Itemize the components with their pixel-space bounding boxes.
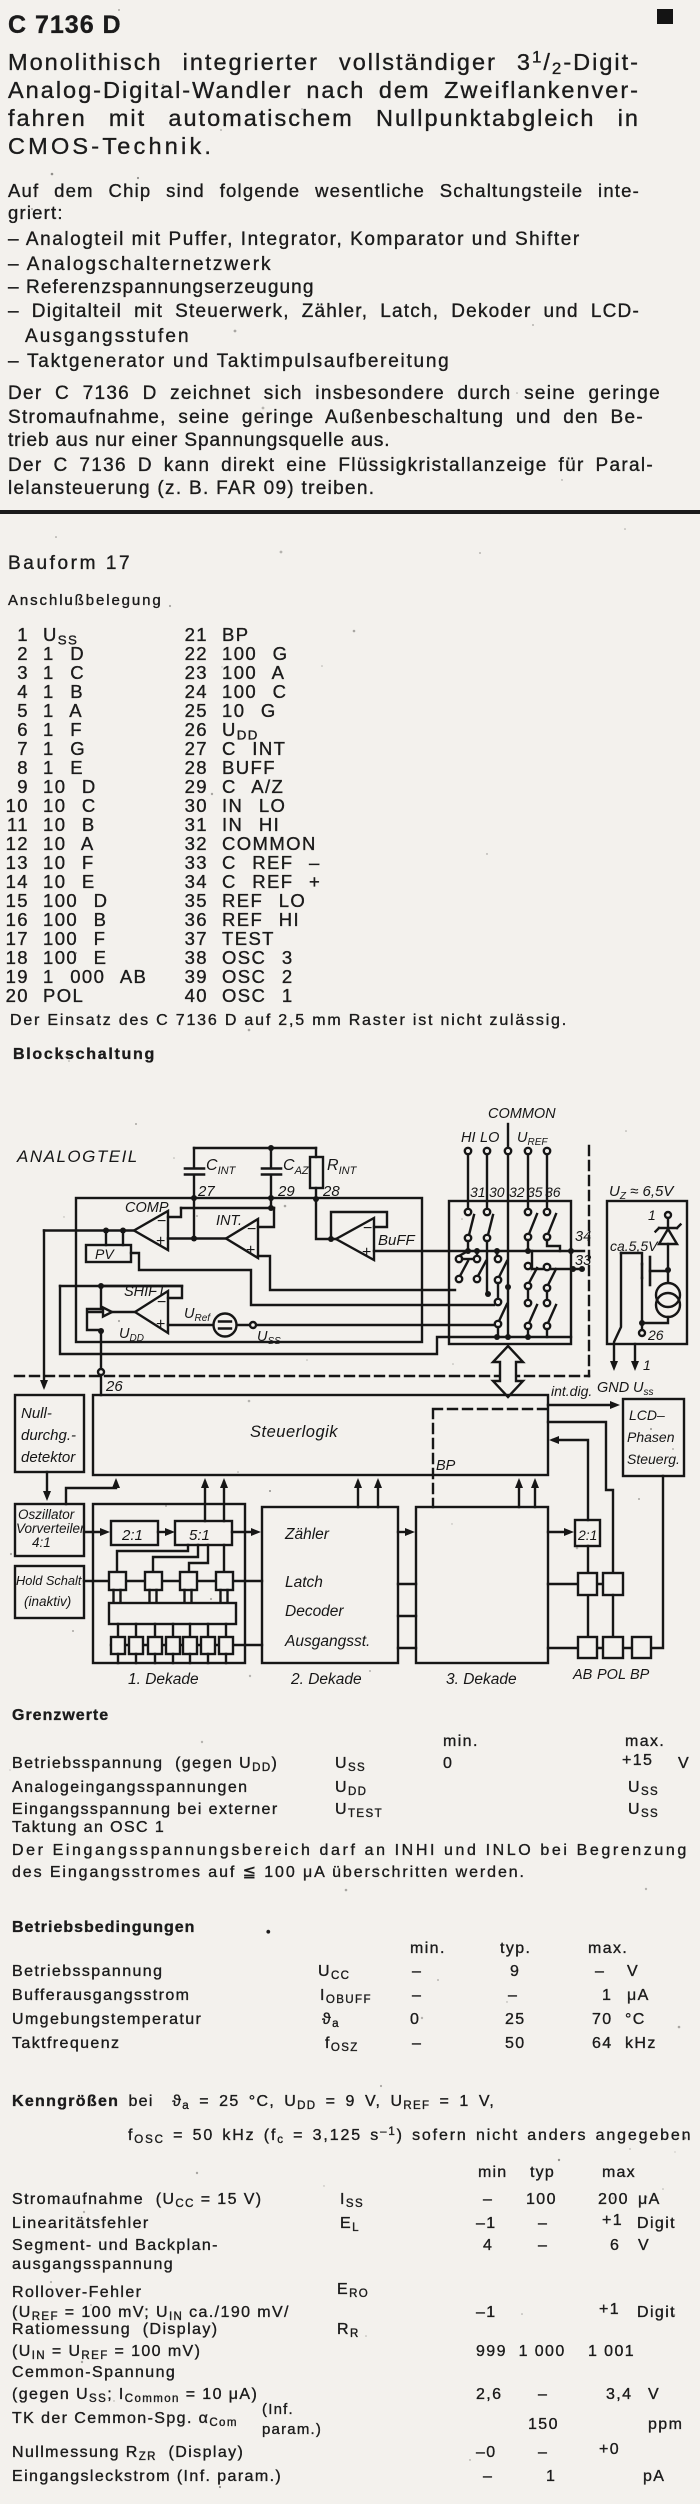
- dashed analog boundary horizontal: [15, 1375, 589, 1377]
- switch S32c: [495, 1299, 507, 1337]
- box 3. Dekade: [416, 1507, 548, 1663]
- wire pin31 drop: [467, 1154, 469, 1201]
- intro paragraph: [8, 48, 640, 104]
- svg-text:CINT: CINT: [206, 1157, 237, 1177]
- svg-text:BP: BP: [436, 1458, 456, 1474]
- voltage regulator box: [607, 1201, 687, 1344]
- current source: [642, 1270, 680, 1323]
- wire to null detector (left drop with arrow): [43, 1231, 45, 1387]
- junction S30 lower: [485, 1291, 491, 1297]
- svg-text:(inaktiv): (inaktiv): [24, 1594, 71, 1609]
- wire 2.Dekade up arrows: [358, 1482, 378, 1507]
- svg-text:HI: HI: [461, 1130, 476, 1146]
- wire INT plus output to switches (y=1290): [258, 1256, 455, 1290]
- zener diode: [656, 1218, 681, 1267]
- latch cells row1: [109, 1572, 233, 1590]
- svg-text:durchg.-: durchg.-: [21, 1427, 76, 1444]
- dashed BP region: [433, 1409, 548, 1507]
- terminal U_SS: [250, 1322, 281, 1347]
- svg-text:4:1: 4:1: [32, 1535, 51, 1550]
- wire top bus C_INT/C_AZ/R_INT: [194, 1147, 316, 1149]
- wire AB feedback into Steuerlogik: [553, 1440, 588, 1520]
- svg-text:ANALOGTEIL: ANALOGTEIL: [16, 1147, 139, 1166]
- wire COMMON stem: [507, 1124, 509, 1148]
- svg-text:COMMON: COMMON: [488, 1106, 556, 1122]
- capacitor C_AZ: [262, 1148, 310, 1198]
- junction pin27 on box top: [191, 1195, 197, 1201]
- junction pin28 on box top: [313, 1196, 319, 1202]
- wire Steuerlogik to LCD with arrow: [548, 1404, 615, 1406]
- switch S36: [544, 1201, 560, 1251]
- switch S35c: [525, 1300, 537, 1337]
- svg-text:CAZ: CAZ: [283, 1157, 310, 1177]
- svg-text:36: 36: [545, 1184, 561, 1200]
- transistor pass element: [621, 1253, 666, 1323]
- svg-text:Null-: Null-: [21, 1405, 52, 1422]
- driver cell AB bottom: [578, 1637, 597, 1658]
- wire 5:1 distribution: [117, 1545, 224, 1572]
- wire null detector to oscillator: [46, 1472, 48, 1496]
- junctions bottom bus: [494, 1334, 531, 1340]
- svg-text:LO: LO: [480, 1130, 499, 1146]
- svg-text:2:1: 2:1: [121, 1527, 143, 1544]
- rule: [0, 510, 700, 514]
- wire output row (y=1645): [111, 1644, 262, 1646]
- divider 2:1: [111, 1521, 158, 1545]
- svg-text:detektor: detektor: [21, 1449, 76, 1466]
- wire C_AZ feedback (y=1208): [181, 1207, 274, 1209]
- box hold switch: [15, 1566, 84, 1618]
- wire U_SS rail (y=1325): [168, 1324, 494, 1326]
- terminal LO: [484, 1148, 490, 1154]
- wire pin35 drop: [527, 1154, 529, 1201]
- wire INT minus step: [258, 1208, 274, 1227]
- op-amp SHIFT: [124, 1284, 168, 1333]
- svg-text:RINT: RINT: [327, 1157, 358, 1177]
- svg-text:35: 35: [527, 1184, 543, 1200]
- svg-text:ca.5,5V: ca.5,5V: [610, 1238, 659, 1254]
- wire 3.Dekade to AB 2:1 arrow: [548, 1531, 569, 1533]
- svg-text:+: +: [246, 1242, 255, 1259]
- junction U_DD: [98, 1328, 104, 1334]
- wire outer loop down and bottom (y=1354): [60, 1286, 449, 1354]
- wire 3.Dekade up arrows: [519, 1482, 535, 1507]
- switch S31b: [456, 1251, 474, 1282]
- svg-text:Uss: Uss: [633, 1380, 653, 1398]
- wire SHIFT feedback top: [101, 1286, 182, 1309]
- box LCD Phasensteuerung: [623, 1399, 684, 1476]
- svg-text:+: +: [362, 1244, 371, 1261]
- svg-text:PV: PV: [95, 1246, 115, 1262]
- terminal UREF-a: [525, 1148, 531, 1154]
- switch S35b: [525, 1263, 537, 1300]
- junction pin27 / INT output: [191, 1236, 197, 1242]
- wire 5:1 to 2.Dekade arrow: [232, 1531, 256, 1533]
- wire U_DD to pin 26: [100, 1331, 102, 1395]
- svg-text:USS: USS: [257, 1329, 281, 1347]
- arrow on SHIFT input: [103, 1308, 112, 1317]
- wire latch/decoder/output row links: [398, 1584, 416, 1648]
- svg-text:POL: POL: [597, 1667, 626, 1683]
- svg-text:Steuerg.: Steuerg.: [627, 1451, 680, 1467]
- switch S30b: [474, 1251, 486, 1282]
- svg-text:1: 1: [643, 1357, 651, 1373]
- svg-text:LCD–: LCD–: [629, 1407, 665, 1423]
- switch S35: [525, 1201, 537, 1251]
- svg-text:26: 26: [105, 1378, 123, 1395]
- junctions pin33: [570, 1266, 585, 1272]
- svg-text:int.dig.: int.dig.: [551, 1383, 592, 1399]
- svg-text:+: +: [156, 1316, 165, 1333]
- box PV: [86, 1245, 131, 1262]
- junction S32 lower: [505, 1284, 511, 1290]
- analog switch network box: [449, 1201, 571, 1344]
- box 2. Dekade: [262, 1507, 398, 1663]
- wire pin27 vertical: [193, 1198, 195, 1238]
- svg-text:Hold Schalt: Hold Schalt: [16, 1573, 82, 1588]
- driver cell BP bottom: [632, 1637, 651, 1658]
- junction COMP out b: [120, 1228, 126, 1234]
- wire SHIFT input rail: [87, 1309, 135, 1330]
- switch S30: [484, 1201, 493, 1294]
- junction pin29 on box top: [268, 1195, 274, 1201]
- svg-text:BP: BP: [630, 1667, 650, 1683]
- junction BuFF output: [328, 1236, 334, 1242]
- op-amp INT: [216, 1213, 258, 1259]
- svg-text:COMP.: COMP.: [125, 1200, 171, 1216]
- terminal 26: [98, 1369, 104, 1375]
- junction pin26 node: [639, 1320, 645, 1326]
- svg-text:1: 1: [648, 1207, 656, 1223]
- analog section box: [76, 1198, 422, 1342]
- svg-text:31: 31: [470, 1184, 486, 1200]
- wire oscillator to Steuerlogik: [66, 1482, 116, 1504]
- terminal zener top: [665, 1212, 671, 1218]
- wire output cell stubs: [118, 1654, 226, 1663]
- wire LCD to BP driver: [651, 1476, 663, 1648]
- svg-text:1. Dekade: 1. Dekade: [128, 1671, 199, 1688]
- svg-text:UREF: UREF: [517, 1130, 548, 1148]
- divider 5:1: [175, 1521, 232, 1545]
- wire pin33 stub: [532, 1251, 583, 1269]
- wire INT output to COMP plus (y=1238): [168, 1237, 226, 1239]
- svg-text:AB: AB: [572, 1667, 593, 1683]
- box null detector: [15, 1395, 84, 1472]
- divider AB 2:1: [575, 1520, 600, 1546]
- wire pin28 to BuFF output: [316, 1198, 336, 1239]
- svg-text:Vorverteiler: Vorverteiler: [16, 1521, 85, 1536]
- box Steuerlogik: [93, 1395, 548, 1475]
- terminal COMMON: [505, 1148, 511, 1154]
- junction COMP out a: [103, 1228, 109, 1234]
- junction on top bus: [268, 1145, 274, 1151]
- wire 2.Dekade to 3.Dekade arrow: [398, 1531, 410, 1533]
- source U_Ref: [184, 1306, 237, 1337]
- svg-text:30: 30: [489, 1184, 505, 1200]
- wire pin32 drop: [507, 1154, 509, 1201]
- switch S32b: [495, 1251, 507, 1299]
- dashed analog boundary vertical: [588, 1146, 590, 1376]
- wire pin36 drop: [546, 1154, 548, 1201]
- svg-text:+: +: [156, 1233, 165, 1250]
- box 1. Dekade: [93, 1504, 245, 1663]
- svg-text:UZ ≈ 6,5V: UZ ≈ 6,5V: [609, 1183, 675, 1202]
- svg-text:URef: URef: [184, 1306, 211, 1324]
- wire BuFF feedback: [331, 1212, 387, 1239]
- output cells row: [111, 1637, 233, 1654]
- svg-text:UDD: UDD: [119, 1326, 144, 1344]
- svg-text:−: −: [363, 1220, 372, 1237]
- switch S36c: [544, 1300, 556, 1337]
- op-amp COMP: [125, 1200, 171, 1250]
- svg-text:−: −: [247, 1221, 256, 1238]
- wire 5:1 up arrows to Steuerlogik: [205, 1482, 224, 1521]
- svg-text:26: 26: [647, 1327, 664, 1343]
- junction zener/current source: [665, 1267, 671, 1273]
- junction pin29/feedback: [268, 1205, 274, 1211]
- svg-text:Steuerlogik: Steuerlogik: [250, 1423, 338, 1441]
- wire PV stubs: [106, 1231, 123, 1246]
- svg-text:32: 32: [509, 1184, 525, 1200]
- wire pin32 column: [507, 1201, 509, 1337]
- wire AB column: [587, 1546, 589, 1637]
- box oscillator prescaler: [15, 1504, 85, 1556]
- wire decoder drops: [118, 1624, 226, 1637]
- driver cell AB top: [578, 1573, 597, 1595]
- driver cell POL bottom: [603, 1637, 623, 1658]
- svg-text:5:1: 5:1: [189, 1527, 210, 1544]
- svg-text:2:1: 2:1: [577, 1527, 597, 1543]
- svg-text:GND: GND: [597, 1380, 629, 1396]
- svg-text:Latch: Latch: [285, 1574, 323, 1591]
- wire COMP minus input step: [168, 1208, 181, 1217]
- svg-text:Ausgangsst.: Ausgangsst.: [284, 1633, 370, 1650]
- switch S36b: [544, 1264, 556, 1300]
- terminal UREF-b: [544, 1148, 550, 1154]
- svg-text:Zähler: Zähler: [284, 1526, 330, 1543]
- wire Steuerlogik to POL driver: [548, 1422, 613, 1573]
- wire outer loop left (y=1286): [60, 1285, 182, 1287]
- wire pin29 vertical: [270, 1198, 272, 1208]
- svg-text:INT.: INT.: [216, 1213, 242, 1229]
- bus arrow analog-digital: [493, 1346, 523, 1397]
- wire Uss leg: [634, 1344, 636, 1366]
- wire 2:1 to 5:1 arrow: [158, 1531, 170, 1533]
- svg-text:2. Dekade: 2. Dekade: [290, 1671, 362, 1688]
- latch bar: [114, 1590, 228, 1603]
- switch S31: [465, 1201, 474, 1251]
- wire PV output to switches (y=1305): [131, 1253, 494, 1305]
- terminal 26 (regulator): [639, 1323, 664, 1343]
- wire main analog bus (y=1251): [374, 1250, 584, 1252]
- svg-text:Phasen: Phasen: [627, 1429, 675, 1445]
- resistor R_INT: [310, 1148, 358, 1198]
- wire COMP output: [44, 1229, 134, 1231]
- junction shift bracket: [98, 1283, 104, 1289]
- wire switch bottom bus (y=1337): [449, 1336, 571, 1338]
- capacitor C_INT: [185, 1148, 237, 1198]
- terminal HI: [465, 1148, 471, 1154]
- driver cell POL top: [603, 1573, 623, 1595]
- svg-text:BuFF: BuFF: [378, 1232, 416, 1249]
- wire GND leg: [614, 1253, 621, 1366]
- wire pin30 drop: [486, 1154, 488, 1201]
- svg-text:3. Dekade: 3. Dekade: [446, 1671, 517, 1688]
- wire hold row (y=1581): [84, 1580, 262, 1582]
- wire POL column: [612, 1595, 614, 1637]
- wire osc to 2:1 arrow: [84, 1531, 105, 1533]
- svg-text:Decoder: Decoder: [285, 1603, 344, 1620]
- junctions on analog bus: [465, 1248, 574, 1254]
- op-amp BuFF: [336, 1218, 416, 1261]
- wire driver row links: [548, 1584, 632, 1648]
- svg-text:Oszillator: Oszillator: [18, 1507, 75, 1522]
